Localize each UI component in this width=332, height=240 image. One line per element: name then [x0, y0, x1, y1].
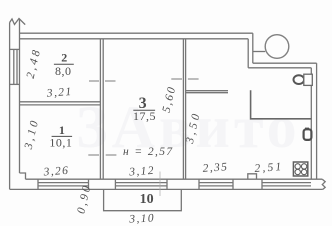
svg-text:10: 10: [140, 192, 154, 207]
svg-text:3,21: 3,21: [45, 86, 73, 100]
svg-text:8,0: 8,0: [55, 64, 72, 78]
svg-text:3,12: 3,12: [128, 165, 156, 179]
svg-text:10,1: 10,1: [49, 136, 72, 150]
svg-text:17,5: 17,5: [133, 109, 156, 123]
svg-text:2,35: 2,35: [202, 161, 229, 175]
svg-text:3,26: 3,26: [42, 165, 70, 179]
svg-text:2: 2: [61, 50, 67, 64]
svg-text:2,51: 2,51: [254, 161, 284, 175]
svg-text:3,10: 3,10: [128, 212, 155, 225]
svg-text:н = 2,57: н = 2,57: [123, 146, 174, 158]
